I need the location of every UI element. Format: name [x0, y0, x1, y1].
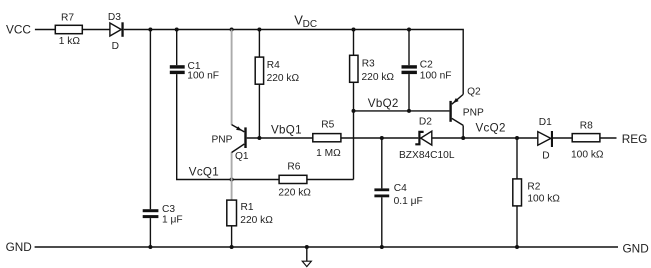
- wire R4 to base wire: [258, 84, 260, 138]
- svg-text:100 nF: 100 nF: [420, 70, 452, 81]
- capacitor C4: [374, 183, 422, 207]
- wire left column upper (rail to C3): [149, 30, 151, 210]
- wire R2 bottom to GND: [516, 206, 518, 247]
- svg-text:1 μF: 1 μF: [162, 215, 183, 226]
- node rail-C1 junction: [175, 28, 179, 32]
- svg-text:R3: R3: [362, 59, 375, 70]
- svg-text:VcQ1: VcQ1: [189, 165, 219, 178]
- wire rail to R3: [353, 30, 355, 56]
- svg-text:DC: DC: [303, 19, 317, 30]
- resistor R3: [350, 55, 395, 83]
- svg-text:C3: C3: [162, 204, 175, 215]
- node C4 junction: [380, 136, 384, 140]
- node Q2 collector junction: [461, 136, 465, 140]
- svg-text:VbQ1: VbQ1: [271, 124, 302, 137]
- svg-text:1 MΩ: 1 MΩ: [316, 148, 341, 159]
- svg-text:VbQ2: VbQ2: [368, 97, 399, 110]
- svg-text:1 kΩ: 1 kΩ: [59, 36, 81, 47]
- svg-text:R2: R2: [527, 181, 540, 192]
- svg-text:REG: REG: [622, 132, 648, 146]
- node rail-R3 junction: [352, 28, 356, 32]
- resistor R6: [278, 161, 311, 198]
- svg-text:GND: GND: [623, 242, 649, 256]
- svg-text:100 nF: 100 nF: [187, 71, 219, 82]
- svg-text:VcQ2: VcQ2: [476, 121, 506, 134]
- svg-text:D: D: [112, 41, 119, 52]
- svg-text:Q2: Q2: [467, 87, 481, 98]
- wire Q2 collector drop: [462, 125, 464, 138]
- diode D1: [538, 117, 553, 161]
- node GND-R2 junction: [515, 245, 519, 249]
- svg-text:R6: R6: [287, 161, 300, 172]
- zener diode D2: [399, 117, 455, 162]
- svg-text:D3: D3: [108, 12, 121, 23]
- svg-text:R5: R5: [321, 120, 334, 131]
- svg-text:D: D: [542, 151, 549, 162]
- wire VDC top rail with right drop to Q2 emitter: [150, 30, 463, 95]
- svg-text:R8: R8: [580, 120, 593, 131]
- wire D2 to D1 through Q2 collector node: [432, 137, 538, 139]
- capacitor C2: [402, 59, 452, 81]
- wire Q1 base to R5: [247, 137, 313, 139]
- node VbQ2-C2 junction: [407, 109, 411, 113]
- svg-text:PNP: PNP: [463, 107, 484, 118]
- svg-text:100 kΩ: 100 kΩ: [571, 149, 604, 160]
- svg-text:PNP: PNP: [212, 134, 233, 145]
- svg-text:D1: D1: [539, 117, 552, 128]
- wire C4 bottom to GND: [381, 197, 383, 247]
- node rail-R4 junction: [257, 28, 261, 32]
- svg-text:BZX84C10L: BZX84C10L: [399, 150, 455, 161]
- wire R1 bottom to GND: [231, 226, 233, 247]
- wire left column lower (C3 to GND): [149, 218, 151, 247]
- svg-text:100 kΩ: 100 kΩ: [527, 194, 560, 205]
- transistor Q2: [449, 87, 484, 126]
- wire VCC to R7: [35, 29, 55, 31]
- svg-text:C2: C2: [420, 59, 433, 70]
- node R2 junction: [515, 136, 519, 140]
- node GND-R1 junction: [230, 245, 234, 249]
- wire C2 to VbQ2: [408, 74, 410, 111]
- svg-text:220 kΩ: 220 kΩ: [240, 215, 273, 226]
- svg-text:220 kΩ: 220 kΩ: [278, 187, 311, 198]
- node rail-Q1 emitter junction: [230, 28, 234, 32]
- wire gray Q1 collector to R1: [231, 152, 233, 200]
- wire R6 to R3 column: [307, 179, 354, 181]
- net VDC label: [294, 13, 317, 30]
- wire rail to R4: [258, 30, 260, 58]
- diode D3: [108, 12, 124, 52]
- svg-text:220 kΩ: 220 kΩ: [267, 73, 300, 84]
- node GND-C4 junction: [380, 245, 384, 249]
- svg-text:D2: D2: [419, 117, 432, 128]
- node rail-C2 junction: [407, 28, 411, 32]
- resistor R5: [313, 120, 341, 160]
- resistor R8: [571, 120, 604, 160]
- svg-text:VCC: VCC: [6, 22, 31, 36]
- transistor Q1: [212, 125, 249, 162]
- wire R7 to D3: [82, 29, 110, 31]
- svg-text:0.1 μF: 0.1 μF: [394, 196, 423, 207]
- node VcQ1 junction: [230, 178, 234, 182]
- node R4-base junction: [257, 136, 261, 140]
- svg-text:Q1: Q1: [235, 151, 249, 162]
- svg-text:GND: GND: [6, 240, 32, 254]
- svg-text:C4: C4: [394, 183, 407, 194]
- resistor R2: [513, 179, 561, 206]
- node GND-ground symbol junction: [305, 245, 309, 249]
- node rail-left junction: [148, 28, 152, 32]
- resistor R1: [227, 200, 273, 226]
- ground symbol: [302, 247, 311, 267]
- resistor R4: [255, 57, 299, 84]
- wire R5 to D2: [341, 137, 418, 139]
- capacitor C3: [143, 204, 183, 226]
- svg-text:R7: R7: [61, 12, 74, 23]
- wire R2 top: [516, 138, 518, 179]
- wire D1 to R8: [553, 137, 572, 139]
- capacitor C1: [170, 61, 219, 82]
- wire R3 down through crossing to R6 corner: [353, 82, 355, 179]
- wire rail to C1: [176, 30, 178, 66]
- wire R8 to REG: [600, 137, 617, 139]
- node GND-left column junction: [148, 245, 152, 249]
- wire GND rail: [35, 246, 618, 248]
- wire gray Q1 emitter feed from rail: [231, 30, 233, 125]
- wire rail to C2: [408, 30, 410, 66]
- svg-text:R1: R1: [241, 202, 254, 213]
- wire C4 top: [381, 138, 383, 188]
- svg-text:220 kΩ: 220 kΩ: [362, 72, 395, 83]
- resistor R7: [55, 12, 82, 47]
- wire D3 to VDC rail: [124, 29, 151, 31]
- svg-text:R4: R4: [267, 60, 280, 71]
- wire C1 down and right to R6 (VcQ1 net): [177, 74, 279, 179]
- node VbQ2-R3 junction: [352, 109, 356, 113]
- wire VbQ2 net to Q2 base: [354, 110, 450, 112]
